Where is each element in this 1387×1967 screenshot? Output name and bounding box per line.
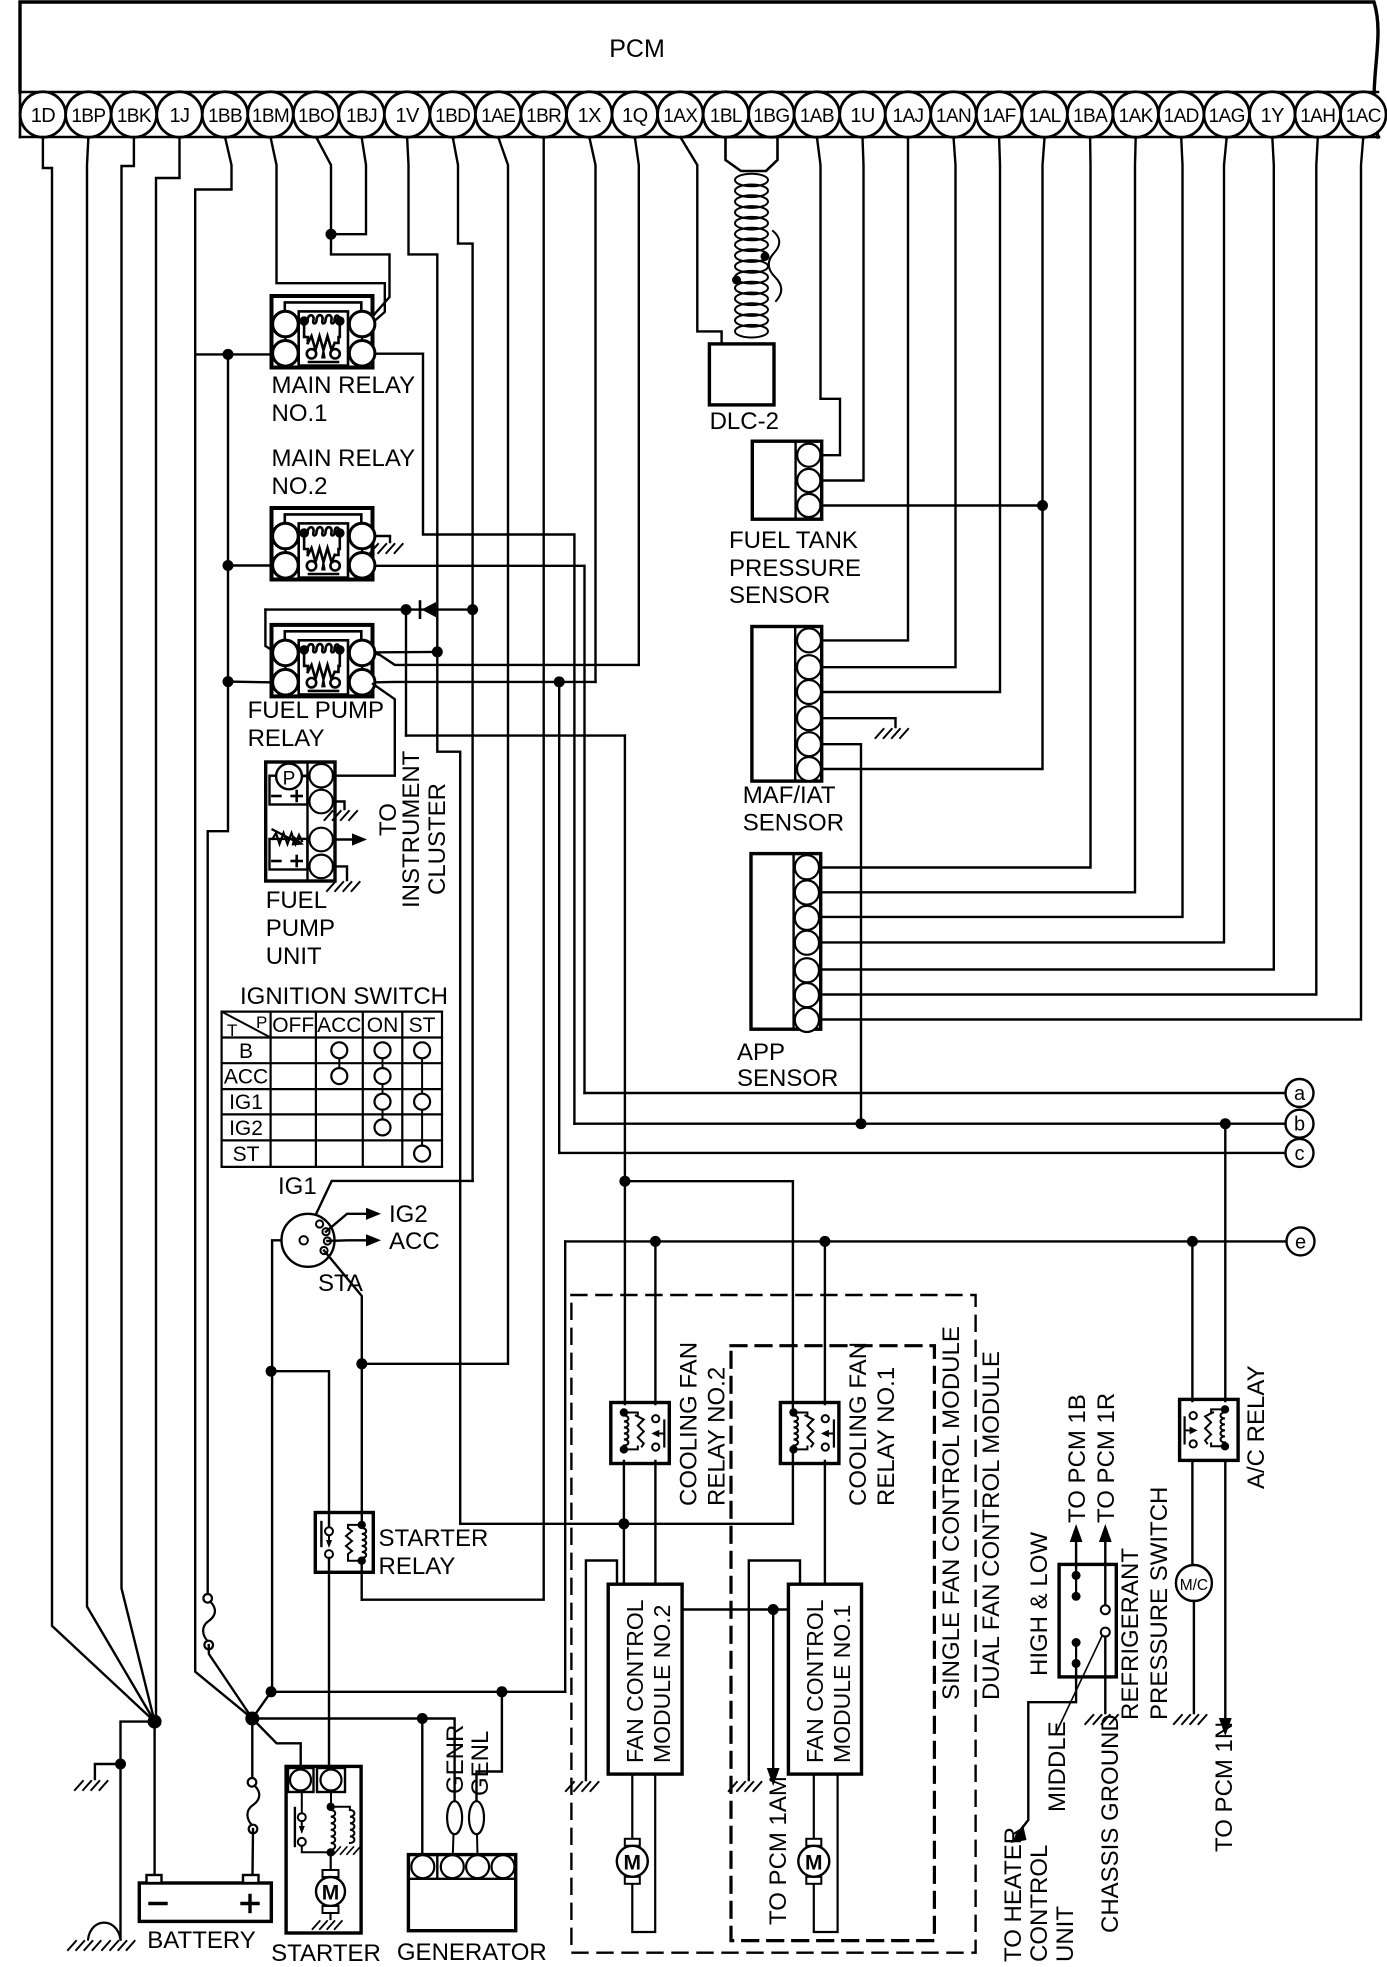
svg-text:OFF: OFF xyxy=(272,1014,314,1037)
ignition switch table xyxy=(222,1010,442,1012)
wire 1AF feed xyxy=(823,137,1000,692)
svg-text:M: M xyxy=(322,1882,340,1905)
svg-text:GENR: GENR xyxy=(442,1725,469,1794)
PCM pin 1BR xyxy=(521,92,567,138)
ground G starter coil xyxy=(334,1847,361,1854)
svg-text:1AH: 1AH xyxy=(1300,106,1335,127)
junction C battery plus junction xyxy=(245,1712,259,1726)
fusible link main xyxy=(203,1594,215,1649)
svg-text:ACC: ACC xyxy=(317,1014,361,1037)
junction J 682 xyxy=(554,676,565,687)
arrow TO PCM 1R xyxy=(1099,1524,1112,1542)
svg-text:APP: APP xyxy=(737,1039,785,1066)
fuel pump unit sender sub-box xyxy=(270,839,308,870)
svg-text:M/C: M/C xyxy=(1180,1577,1208,1594)
svg-text:1AD: 1AD xyxy=(1164,106,1199,127)
wire heater lead xyxy=(1016,1663,1076,1836)
wire fcm2 ground xyxy=(586,1561,617,1781)
ground G fpu1 xyxy=(325,811,359,820)
wire starter relay sw to starter xyxy=(328,1558,330,1769)
ground G maf xyxy=(876,729,910,738)
svg-text:1Y: 1Y xyxy=(1261,105,1285,127)
wire 1Y feed xyxy=(823,137,1274,970)
relay COOLING FAN RELAY NO.1 xyxy=(780,1403,839,1464)
svg-text:1AB: 1AB xyxy=(800,106,834,127)
wire 1BK feed xyxy=(122,137,155,1722)
wire b line xyxy=(574,1122,1285,1124)
ground G starter motor xyxy=(313,1921,344,1929)
wire relay2 BR out xyxy=(373,566,585,1093)
PCM pin 1Q xyxy=(612,92,658,138)
ground G fcm1 xyxy=(729,1782,763,1791)
wire fcm1 ground xyxy=(749,1561,800,1781)
svg-text:GENERATOR: GENERATOR xyxy=(397,1939,547,1966)
junction J fp coil xyxy=(432,646,443,657)
node e xyxy=(1287,1227,1315,1255)
wire 1J feed xyxy=(156,137,180,1722)
junction A battery junction xyxy=(148,1715,162,1729)
wire v 406 xyxy=(405,610,407,736)
svg-text:UNIT: UNIT xyxy=(1052,1906,1079,1962)
wire to pcm 1am drop xyxy=(772,1610,774,1771)
wire fp unit pin4 gnd xyxy=(333,866,347,880)
svg-text:ON: ON xyxy=(367,1014,399,1037)
wire D bus right xyxy=(271,1691,565,1693)
relay STARTER RELAY xyxy=(315,1513,373,1573)
PCM pin 1AG xyxy=(1204,92,1250,138)
wire starter relay coil drop xyxy=(361,1563,363,1600)
wire cfr1 sw drop xyxy=(824,1241,826,1404)
wire 1AX feed xyxy=(680,137,721,344)
arrow to instrument cluster xyxy=(352,833,367,845)
svg-text:SINGLE FAN CONTROL MODULE: SINGLE FAN CONTROL MODULE xyxy=(938,1326,965,1700)
relay MAIN RELAY NO.2 xyxy=(272,508,375,580)
wire 1BR feed xyxy=(362,137,544,1600)
wire maf pin4 gnd xyxy=(823,718,896,727)
svg-text:1AJ: 1AJ xyxy=(893,106,924,127)
wire mc branch xyxy=(1191,1241,1193,1401)
svg-text:COOLING FAN: COOLING FAN xyxy=(676,1342,703,1506)
ground G fpu2 xyxy=(327,882,361,891)
svg-text:NO.1: NO.1 xyxy=(272,400,328,427)
ignition key switch xyxy=(282,1214,335,1267)
generator GENR fuse xyxy=(447,1801,462,1834)
svg-text:STARTER: STARTER xyxy=(271,1940,381,1967)
generator xyxy=(408,1855,515,1931)
arrow TO HEATER CONTROL UNIT xyxy=(1011,1825,1027,1844)
wire c line xyxy=(559,1152,1285,1154)
wire ACC lead xyxy=(327,1239,366,1242)
wire cfr1 coil upper xyxy=(625,1181,793,1411)
svg-text:1BP: 1BP xyxy=(71,106,105,127)
wire 1AE feed xyxy=(362,137,508,1364)
svg-text:1BR: 1BR xyxy=(526,106,561,127)
PCM pin 1BL xyxy=(703,92,749,138)
arrow IG2 xyxy=(366,1208,381,1220)
table contact circles xyxy=(338,1050,340,1076)
svg-text:1AE: 1AE xyxy=(481,106,515,127)
svg-text:CHASSIS GROUND: CHASSIS GROUND xyxy=(1097,1714,1124,1933)
PCM module box xyxy=(20,2,1378,137)
svg-text:TO HEATER: TO HEATER xyxy=(1000,1827,1027,1962)
svg-text:A/C RELAY: A/C RELAY xyxy=(1243,1365,1270,1489)
svg-text:MAIN RELAY: MAIN RELAY xyxy=(272,445,416,472)
wire e riser xyxy=(564,1241,566,1691)
arrow TO PCM 1AM xyxy=(767,1768,780,1786)
node b xyxy=(1286,1110,1314,1138)
wire generator pin1 drop xyxy=(421,1719,423,1856)
PCM pin 1BK xyxy=(111,92,157,138)
svg-text:IGNITION SWITCH: IGNITION SWITCH xyxy=(240,983,448,1010)
wire key B wire xyxy=(272,1240,281,1692)
wire fp coil to 1V xyxy=(373,651,437,654)
junction T2 xyxy=(223,560,234,571)
svg-text:PUMP: PUMP xyxy=(266,915,335,942)
svg-text:MAIN RELAY: MAIN RELAY xyxy=(272,372,416,399)
fusible link battery xyxy=(247,1778,259,1833)
twisted pair break squiggle xyxy=(769,231,782,301)
svg-text:a: a xyxy=(1294,1083,1306,1105)
svg-text:DLC-2: DLC-2 xyxy=(710,408,779,435)
svg-text:REFRIGERANT: REFRIGERANT xyxy=(1117,1548,1144,1720)
ground G left1 xyxy=(75,1781,109,1790)
wire STA lead xyxy=(324,1251,362,1364)
svg-text:HIGH & LOW: HIGH & LOW xyxy=(1026,1532,1053,1676)
wire GENL riser xyxy=(477,1692,502,1802)
svg-text:1AG: 1AG xyxy=(1209,106,1245,127)
PCM pin 1BD xyxy=(430,92,476,138)
PCM pin 1AF xyxy=(976,92,1022,138)
wire pcm1r lead xyxy=(1104,1540,1106,1605)
wire B to starter relay switch xyxy=(272,1371,329,1533)
svg-text:SENSOR: SENSOR xyxy=(729,582,830,609)
wire 1AJ feed xyxy=(823,137,908,640)
svg-text:1AN: 1AN xyxy=(936,106,971,127)
wire cfr1 sw lower xyxy=(824,1461,826,1584)
motor fan no.2 xyxy=(625,1839,640,1846)
PCM pin 1AE xyxy=(475,92,521,138)
junction J 1AL xyxy=(1037,500,1048,511)
svg-text:1D: 1D xyxy=(31,105,56,127)
wire 1AN feed xyxy=(823,137,956,667)
switch HIGH & LOW refrigerant pressure switch xyxy=(1059,1564,1116,1677)
wire e line xyxy=(565,1240,1286,1242)
diode D1 xyxy=(419,602,422,618)
fuel pump unit xyxy=(266,762,335,881)
wire fp relay TR line xyxy=(373,653,639,665)
node c xyxy=(1286,1139,1314,1167)
svg-text:1BM: 1BM xyxy=(252,106,289,127)
wire C to starter B xyxy=(252,1719,300,1770)
wire cfr2 sw drop xyxy=(654,1241,656,1404)
wire STA drop xyxy=(361,1364,363,1522)
svg-text:FUEL: FUEL xyxy=(266,887,327,914)
PCM pin 1AJ xyxy=(885,92,931,138)
junction J diode left xyxy=(401,604,412,615)
wire fp unit pin1 xyxy=(333,684,395,776)
svg-text:MAF/IAT: MAF/IAT xyxy=(743,782,836,809)
PCM pin 1AB xyxy=(794,92,840,138)
junction J e cfr1 xyxy=(819,1236,830,1247)
junction J diode right xyxy=(467,604,478,615)
wire battery bus vertical xyxy=(208,354,228,1594)
svg-text:1BA: 1BA xyxy=(1073,106,1108,127)
svg-text:RELAY: RELAY xyxy=(248,725,325,752)
connector APP SENSOR xyxy=(751,854,821,1030)
wire IG2 lead xyxy=(326,1214,366,1232)
svg-text:GENL: GENL xyxy=(467,1731,494,1796)
wire h 1524 xyxy=(460,1523,793,1525)
junction J 1BO-1BJ xyxy=(326,229,337,240)
wire 1BM feed xyxy=(271,137,385,323)
PCM pin 1BA xyxy=(1067,92,1113,138)
wire 1BA feed xyxy=(823,137,1091,868)
ground G left3 xyxy=(102,1941,136,1950)
svg-text:CONTROL: CONTROL xyxy=(1026,1845,1053,1962)
PCM pin 1J xyxy=(157,92,203,138)
svg-text:1BO: 1BO xyxy=(298,106,334,127)
svg-text:DUAL FAN CONTROL MODULE: DUAL FAN CONTROL MODULE xyxy=(978,1351,1005,1700)
wire relay1 BR out xyxy=(373,354,574,1124)
wire ac relay coil drop xyxy=(1224,1124,1226,1401)
svg-text:ACC: ACC xyxy=(389,1228,440,1255)
wire relay2 BL tap xyxy=(228,564,276,566)
junction squiggle dot2 xyxy=(732,276,741,285)
svg-text:BATTERY: BATTERY xyxy=(147,1927,255,1954)
svg-text:e: e xyxy=(1295,1231,1306,1253)
PCM pin 1BG xyxy=(749,92,795,138)
generator GENL fuse xyxy=(469,1801,484,1834)
svg-text:IG1: IG1 xyxy=(229,1091,263,1114)
relay COOLING FAN RELAY NO.2 xyxy=(611,1403,670,1464)
PCM pin 1D xyxy=(20,92,66,138)
wire ground jumper left xyxy=(121,1722,155,1940)
wire fp relay TL lead xyxy=(265,610,276,653)
PCM pin 1AH xyxy=(1295,92,1341,138)
wire 1D feed xyxy=(43,137,155,1722)
wire 1AL feed xyxy=(823,137,1045,769)
wire IG1 line xyxy=(304,1181,473,1240)
wire ground arc xyxy=(88,1923,121,1940)
svg-text:INSTRUMENT: INSTRUMENT xyxy=(398,750,425,908)
svg-text:FAN CONTROL: FAN CONTROL xyxy=(802,1599,828,1763)
battery xyxy=(139,1883,271,1921)
svg-text:ST: ST xyxy=(409,1014,436,1037)
wire 1AB feed xyxy=(817,137,840,455)
svg-text:ST: ST xyxy=(233,1143,260,1166)
arrow ACC xyxy=(366,1234,381,1246)
relay FUEL PUMP RELAY xyxy=(272,625,375,697)
svg-text:P: P xyxy=(256,1013,267,1032)
svg-text:1Q: 1Q xyxy=(622,105,648,127)
svg-text:SENSOR: SENSOR xyxy=(743,810,844,837)
PCM pin 1BP xyxy=(66,92,112,138)
wire ground tap xyxy=(95,1764,121,1779)
wire fp unit pin3 arrow xyxy=(333,838,352,840)
svg-text:FAN CONTROL: FAN CONTROL xyxy=(622,1599,648,1763)
svg-text:1BK: 1BK xyxy=(117,106,152,127)
svg-text:RELAY NO.2: RELAY NO.2 xyxy=(704,1367,731,1506)
svg-text:PRESSURE SWITCH: PRESSURE SWITCH xyxy=(1146,1487,1173,1720)
PCM pin 1Y xyxy=(1250,92,1296,138)
PCM pin 1BO xyxy=(293,92,339,138)
svg-text:1AC: 1AC xyxy=(1346,106,1381,127)
wire 1BD feed xyxy=(453,137,473,1181)
svg-text:IG2: IG2 xyxy=(229,1117,263,1140)
wire fusible link to C xyxy=(209,1645,253,1719)
wire ftp pin3 line xyxy=(823,504,1043,506)
wire cfr2 sw lower xyxy=(654,1461,656,1584)
svg-text:STA: STA xyxy=(318,1270,363,1297)
svg-text:MIDDLE: MIDDLE xyxy=(1044,1721,1071,1812)
wire 1Q feed xyxy=(635,137,639,665)
svg-text:1AF: 1AF xyxy=(983,106,1016,127)
dashed box DUAL FAN CONTROL MODULE xyxy=(571,1295,975,1953)
connector DLC-2 box xyxy=(709,344,774,405)
svg-text:UNIT: UNIT xyxy=(266,943,322,970)
motor fan no.1 loop xyxy=(814,1774,838,1932)
svg-text:FUEL TANK: FUEL TANK xyxy=(729,527,858,554)
junction J key B xyxy=(266,1366,277,1377)
svg-text:TO PCM 1B: TO PCM 1B xyxy=(1064,1394,1091,1523)
relay MAIN RELAY NO.1 xyxy=(272,296,375,368)
svg-text:IG2: IG2 xyxy=(389,1201,428,1228)
wire v 625 xyxy=(624,736,626,1404)
ground G left2 xyxy=(68,1941,102,1950)
wire relay1 BL tap xyxy=(195,353,276,355)
junction J 1181 xyxy=(619,1176,630,1187)
svg-text:RELAY: RELAY xyxy=(379,1553,456,1580)
PCM pin 1AN xyxy=(931,92,977,138)
junction J 1AM xyxy=(768,1604,779,1615)
svg-text:SENSOR: SENSOR xyxy=(737,1065,838,1092)
svg-text:1BJ: 1BJ xyxy=(346,106,377,127)
wire fcm link xyxy=(682,1608,788,1610)
svg-text:1X: 1X xyxy=(578,105,602,127)
wire 1X feed xyxy=(589,137,595,682)
svg-text:1BG: 1BG xyxy=(753,106,789,127)
wire cfr1 coil riser xyxy=(792,1451,794,1524)
wire maf pin5 line xyxy=(823,744,861,1123)
svg-text:1AK: 1AK xyxy=(1119,106,1154,127)
PCM pin 1X xyxy=(567,92,613,138)
junction J e cfr2 xyxy=(650,1236,661,1247)
starter motor M xyxy=(330,1852,332,1874)
relay A/C RELAY (mirrored) xyxy=(1180,1399,1239,1460)
arrow TO PCM 1N xyxy=(1219,1718,1232,1736)
middle contact lever + callout xyxy=(1056,1636,1102,1733)
svg-text:IG1: IG1 xyxy=(278,1173,317,1200)
junction T3 xyxy=(223,676,234,687)
svg-text:PRESSURE: PRESSURE xyxy=(729,555,861,582)
svg-text:TO PCM 1N: TO PCM 1N xyxy=(1211,1722,1238,1852)
wire C to D diag xyxy=(252,1692,271,1719)
PCM pin 1BB xyxy=(202,92,248,138)
PCM pin 1AD xyxy=(1158,92,1204,138)
ground G mc xyxy=(1174,1715,1208,1724)
wire 1BO feed xyxy=(316,137,331,234)
svg-text:c: c xyxy=(1295,1143,1305,1165)
wire 1BB feed xyxy=(195,137,252,1719)
dashed box SINGLE FAN CONTROL MODULE xyxy=(731,1346,934,1941)
junction D junction xyxy=(266,1686,277,1697)
junction J b maf xyxy=(856,1118,867,1129)
wire pcm1b lead xyxy=(1075,1540,1077,1575)
svg-text:TO PCM 1AM: TO PCM 1AM xyxy=(765,1776,792,1925)
svg-text:PCM: PCM xyxy=(609,35,665,63)
wire relay2 TR gnd lead xyxy=(373,536,390,542)
wire 1AG feed xyxy=(823,137,1227,942)
PCM pin 1AK xyxy=(1113,92,1159,138)
PCM pin 1V xyxy=(384,92,430,138)
svg-text:1U: 1U xyxy=(850,105,874,127)
junction squiggle dot1 xyxy=(761,252,770,261)
wire cfr2 coil lower xyxy=(623,1461,625,1584)
svg-text:T: T xyxy=(227,1021,237,1040)
svg-text:b: b xyxy=(1294,1114,1305,1136)
svg-text:1AL: 1AL xyxy=(1029,106,1061,127)
fuel pump unit pump sub-box xyxy=(270,776,308,805)
wire 1AK feed xyxy=(823,137,1136,892)
wire diode line xyxy=(265,608,472,610)
wire battery negative lead xyxy=(153,1722,155,1875)
ground G refsw xyxy=(1085,1715,1119,1724)
svg-text:1V: 1V xyxy=(395,105,420,127)
svg-text:RELAY NO.1: RELAY NO.1 xyxy=(873,1367,900,1506)
wire ac relay coil to arrow xyxy=(1224,1461,1226,1720)
connector MAF/IAT SENSOR xyxy=(752,627,822,782)
svg-text:NO.2: NO.2 xyxy=(272,473,328,500)
arrow TO PCM 1B xyxy=(1070,1524,1083,1542)
wire 1BO to relay1 TR xyxy=(331,234,390,317)
wire fp relay BR line xyxy=(373,681,596,684)
PCM pin 1AL xyxy=(1022,92,1068,138)
PCM pin 1U xyxy=(840,92,886,138)
svg-text:TO PCM 1R: TO PCM 1R xyxy=(1093,1393,1120,1523)
junction J STA xyxy=(356,1358,367,1369)
junction J genl xyxy=(496,1686,507,1697)
node a xyxy=(1286,1079,1314,1107)
svg-text:1AX: 1AX xyxy=(663,106,698,127)
wire battery positive lead xyxy=(251,1719,253,1779)
motor M/C magnetic clutch xyxy=(1176,1565,1212,1601)
svg-text:1BB: 1BB xyxy=(208,106,242,127)
wire mc to relay xyxy=(1191,1461,1193,1565)
wire 1V feed xyxy=(407,137,460,1524)
starter solenoid switch xyxy=(301,1791,303,1814)
PCM pin 1BJ xyxy=(339,92,385,138)
svg-text:MODULE NO.2: MODULE NO.2 xyxy=(649,1605,675,1763)
motor fan no.2 loop xyxy=(632,1774,655,1932)
wire 1AC feed xyxy=(823,137,1363,1020)
junction J b ac xyxy=(1220,1118,1231,1129)
wire h 735 xyxy=(406,734,625,736)
ground G relay2 xyxy=(370,544,404,553)
svg-text:1BD: 1BD xyxy=(435,106,470,127)
starter solenoid coils xyxy=(330,1791,332,1807)
junction J 1524 xyxy=(618,1518,629,1529)
ground G fcm2 xyxy=(566,1782,600,1791)
wire a line xyxy=(585,1092,1286,1094)
DLC-2 twisted pair connector xyxy=(726,137,778,171)
fan control module no.2 box xyxy=(608,1584,682,1774)
wire fp unit pin2 gnd xyxy=(333,802,345,810)
wire refsw gnd xyxy=(1104,1637,1106,1713)
svg-text:COOLING FAN: COOLING FAN xyxy=(845,1342,872,1506)
wire battery positive lead2 xyxy=(251,1829,254,1875)
svg-text:CLUSTER: CLUSTER xyxy=(424,783,451,895)
fan control module no.1 box xyxy=(788,1584,861,1774)
